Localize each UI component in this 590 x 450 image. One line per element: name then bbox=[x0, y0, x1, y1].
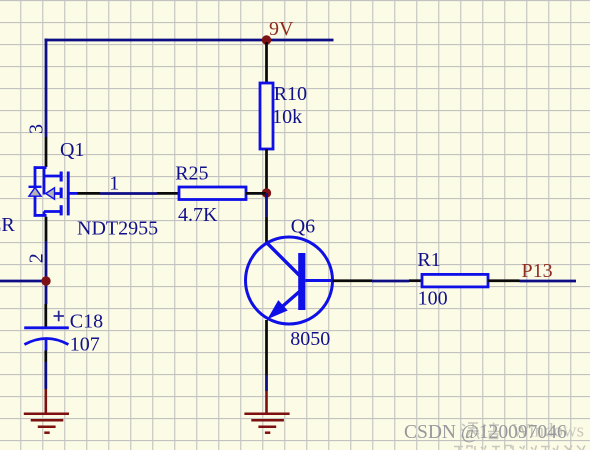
capacitor C18 bottom stub bbox=[45, 339, 48, 351]
svg-text:Q1: Q1 bbox=[60, 139, 84, 161]
svg-text:ER: ER bbox=[0, 214, 15, 236]
svg-text:C18: C18 bbox=[70, 311, 103, 333]
Q1 gate bar bbox=[67, 172, 70, 216]
wire R10 top (black) bbox=[265, 42, 268, 83]
pin Q6 base (black) bbox=[333, 279, 373, 282]
Q6 base line bbox=[305, 279, 332, 282]
svg-text:4.7K: 4.7K bbox=[178, 204, 218, 226]
wire R1 to P13 bbox=[520, 280, 577, 283]
svg-text:R25: R25 bbox=[175, 163, 208, 185]
resistor R25 bbox=[179, 187, 246, 200]
wire Q1 drain down bbox=[45, 241, 48, 304]
svg-text:3: 3 bbox=[26, 124, 48, 134]
Q1 channel contact middle bbox=[60, 188, 63, 198]
svg-text:100: 100 bbox=[418, 287, 448, 309]
wire emitter to ground bbox=[265, 375, 268, 391]
Q1 channel contact top bbox=[60, 172, 63, 182]
svg-text:107: 107 bbox=[70, 333, 100, 355]
Q1 channel contact bottom bbox=[60, 205, 63, 215]
pin 1 of Q1 (black) bbox=[78, 192, 101, 195]
transistor Q1 PMOS symbol bbox=[34, 166, 78, 216]
ground left stem bbox=[44, 389, 47, 413]
svg-text:9V: 9V bbox=[269, 18, 294, 40]
pin R1 right (black) bbox=[488, 279, 520, 282]
junction dot at 9V rail bbox=[262, 35, 271, 44]
wire left vertical from rail bbox=[45, 39, 48, 138]
junction dot left bbox=[41, 276, 50, 285]
Q6 collector diagonal bbox=[267, 243, 300, 276]
resistor R1 bbox=[422, 274, 488, 287]
pin R1 left (black) bbox=[409, 279, 422, 282]
pin C18 top (black) bbox=[44, 304, 47, 327]
Q1 bottom step bbox=[43, 211, 46, 215]
pin 2 of Q1 (black) bbox=[45, 217, 48, 241]
Q1 gate stub bbox=[70, 192, 78, 195]
svg-text:R10: R10 bbox=[274, 83, 307, 105]
Q1 top lead bbox=[34, 166, 47, 169]
svg-text:R1: R1 bbox=[417, 249, 440, 271]
Q1 bracket vertical bbox=[34, 166, 37, 216]
pin Q6 emitter (black) bbox=[265, 320, 268, 375]
wire gate to R25 bbox=[100, 192, 157, 195]
pin R25 right (black) bbox=[246, 192, 266, 195]
Q1 bottom lead bbox=[34, 214, 47, 217]
Q1 source vertical bbox=[43, 168, 46, 195]
wire junction to Q6 collector bbox=[265, 193, 268, 217]
svg-text:1: 1 bbox=[109, 172, 119, 194]
junction dot mid bbox=[262, 188, 271, 197]
Q6 emitter arrowhead bbox=[267, 300, 287, 319]
pin 3 of Q1 (black) bbox=[45, 137, 48, 167]
wire left stub bbox=[0, 280, 46, 283]
pin R10 bottom (black) bbox=[265, 149, 268, 191]
pin Q6 collector (black) bbox=[265, 217, 268, 243]
svg-text:CSDN @120097046: CSDN @120097046 bbox=[404, 422, 567, 443]
wire C18 to ground bbox=[44, 362, 47, 389]
ground left symbol bbox=[24, 414, 69, 433]
Q1 substrate arrow bbox=[46, 188, 55, 199]
watermark CJK line 1 (drawn strokes) bbox=[461, 423, 500, 440]
Q6 emitter diagonal bbox=[280, 292, 300, 309]
svg-text:NDT2955: NDT2955 bbox=[77, 217, 158, 239]
svg-text:P13: P13 bbox=[522, 260, 553, 282]
pin C18 bottom (black) bbox=[44, 351, 47, 363]
ground right stem bbox=[265, 391, 268, 413]
Q1 step to top contact bbox=[44, 175, 61, 178]
Q1 substrate line bbox=[53, 192, 61, 195]
svg-text:10k: 10k bbox=[272, 106, 302, 128]
Q6 base bar bbox=[298, 253, 305, 310]
ground right symbol bbox=[244, 414, 289, 433]
wire base to R1 bbox=[372, 280, 409, 283]
svg-text:8050: 8050 bbox=[290, 328, 330, 350]
transistor Q6 circle bbox=[246, 237, 333, 324]
svg-text:2: 2 bbox=[25, 253, 47, 263]
pin R25 left (black) bbox=[157, 192, 179, 195]
Q1 body diode cathode bar bbox=[29, 186, 42, 188]
watermark CJK line 2 top fragments (drawn strokes) bbox=[454, 446, 585, 450]
Q1 body diode triangle bbox=[29, 188, 41, 197]
svg-text:Q6: Q6 bbox=[291, 216, 315, 238]
capacitor C18 bottom plate arc bbox=[24, 339, 68, 345]
capacitor C18 plus sign bbox=[54, 311, 64, 321]
capacitor C18 top plate bbox=[24, 326, 69, 329]
resistor R10 bbox=[260, 83, 273, 149]
wire 9V power rail bbox=[45, 39, 334, 42]
